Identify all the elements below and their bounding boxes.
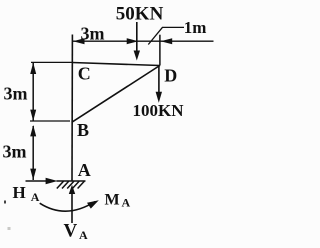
top dim 1m arrow	[161, 38, 173, 44]
svg-text:100KN: 100KN	[133, 101, 185, 120]
svg-text:A: A	[31, 190, 40, 204]
svg-text:V: V	[64, 221, 78, 242]
tick at B level	[30, 120, 70, 122]
ground line at support A	[57, 180, 86, 182]
svg-text:3m: 3m	[4, 84, 28, 104]
svg-text:A: A	[78, 160, 91, 180]
member column A-B-C with extension above C	[71, 35, 73, 182]
extension line above D	[159, 35, 161, 66]
svg-text:A: A	[79, 228, 88, 242]
reaction H_A arrow	[26, 180, 47, 182]
svg-text:B: B	[77, 120, 89, 140]
hatching of fixed support	[57, 181, 85, 188]
svg-text:D: D	[164, 66, 177, 86]
left dim lower segment	[32, 126, 34, 180]
scan speck left	[8, 227, 11, 230]
scan speck bottom-left	[4, 201, 6, 204]
svg-text:H: H	[13, 183, 26, 202]
top dim right arrow (3m)	[127, 38, 139, 44]
top dimension line	[73, 40, 214, 42]
member top chord C-D	[72, 63, 160, 66]
leader line for 1m	[148, 27, 184, 44]
member diagonal B-D	[72, 66, 160, 123]
left dim upper segment	[32, 63, 34, 121]
top dim left arrow (3m)	[73, 38, 85, 44]
svg-text:50KN: 50KN	[116, 4, 164, 25]
svg-text:M: M	[105, 191, 120, 208]
tick at C level	[31, 61, 72, 63]
svg-text:A: A	[122, 196, 131, 210]
svg-text:3m: 3m	[81, 23, 105, 43]
load 50KN arrow	[136, 22, 138, 52]
svg-text:C: C	[78, 64, 91, 84]
load 100KN arrow	[158, 66, 160, 94]
reaction moment M_A arc	[40, 202, 95, 212]
reaction V_A arrow	[69, 185, 75, 194]
svg-text:1m: 1m	[184, 18, 207, 37]
svg-text:3m: 3m	[3, 141, 27, 161]
